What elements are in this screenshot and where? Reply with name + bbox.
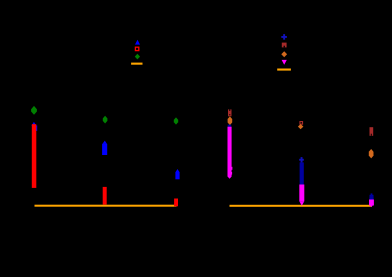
left cluster 3: red error bar	[174, 199, 178, 207]
right cluster 1: brown open square stack	[228, 109, 232, 116]
right cluster 3: brown open square stack	[370, 127, 374, 136]
left legend: red open square marker	[135, 47, 138, 50]
right panel axis line (orange)	[230, 205, 372, 207]
left cluster 3: blue marker stack (triangle top + bar)	[175, 169, 179, 172]
right cluster 3: blue plus marker with bar	[369, 193, 373, 199]
right legend: orange diamond marker	[281, 51, 287, 57]
right cluster 3: magenta bar with triangle-down tip	[369, 200, 374, 206]
left legend: green diamond marker	[135, 54, 140, 60]
left legend: orange line sample	[131, 63, 142, 65]
right cluster 3: orange diamond stack	[369, 149, 374, 158]
right cluster 2: orange diamond	[298, 124, 304, 129]
left cluster 1: blue triangle marker with bar sliver	[31, 122, 36, 126]
right cluster 1: blue plus sliver	[228, 125, 232, 127]
right cluster 2: magenta bar with triangle-down tip	[299, 185, 304, 202]
left cluster 2: blue marker stack (triangle top + bar)	[102, 141, 107, 144]
left legend: blue triangle marker	[135, 40, 140, 45]
left cluster 3: green diamond stack	[174, 117, 178, 124]
right cluster 2: blue error bar	[300, 162, 304, 185]
right cluster 1: magenta bar with triangle-down tip	[228, 127, 232, 177]
left cluster 1: red error bar	[32, 124, 37, 188]
right legend: orange line sample	[277, 69, 291, 71]
left cluster 1: green diamond stack	[31, 106, 37, 115]
right legend: blue plus marker	[281, 34, 287, 40]
left cluster 2: green diamond stack	[103, 116, 108, 124]
right legend: magenta triangle-down marker	[282, 60, 287, 65]
right cluster 1: orange diamond stack	[228, 116, 233, 125]
left cluster 2: red error bar	[103, 187, 107, 205]
right cluster 2: blue plus marker	[299, 157, 304, 162]
right cluster 2: brown open square	[299, 121, 303, 125]
left panel axis line (orange)	[35, 205, 177, 207]
right legend: brown open square marker	[282, 43, 287, 48]
